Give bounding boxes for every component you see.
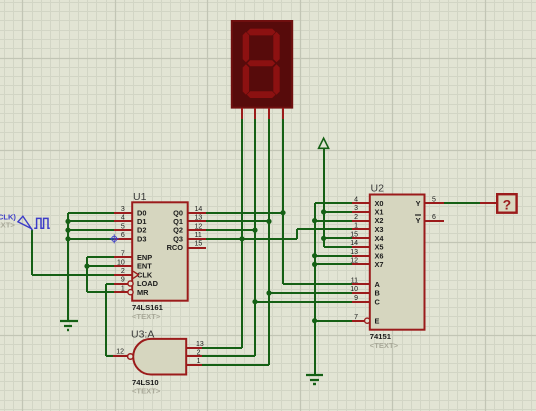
svg-text:10: 10 <box>117 259 125 266</box>
wire MR net <box>87 291 114 293</box>
svg-text:B: B <box>375 289 380 298</box>
pin 2 X2 U2 <box>352 220 370 222</box>
wire Q2 net <box>205 229 255 231</box>
svg-text:14: 14 <box>195 206 203 213</box>
node Q2 junction <box>252 228 257 233</box>
wire X2 net <box>315 220 352 222</box>
display segment d <box>247 91 276 98</box>
pin 4 X0 U2 <box>352 202 370 204</box>
pin 2 CLK U1 <box>114 274 132 276</box>
node D3 junction <box>65 236 70 241</box>
wire D2 net <box>68 229 114 231</box>
svg-text:Y: Y <box>416 216 421 225</box>
wire B net <box>269 292 352 294</box>
chip U1 74LS161 body <box>132 202 188 300</box>
svg-text:?: ? <box>503 196 512 212</box>
svg-text:X3: X3 <box>375 225 384 234</box>
svg-text:D3: D3 <box>137 234 146 243</box>
svg-text:D2: D2 <box>137 226 146 235</box>
svg-text:Q3: Q3 <box>173 234 183 243</box>
wire X6 net <box>315 255 352 257</box>
pin 10 ENT U1 <box>114 265 132 267</box>
pin 11 Q3 U1 <box>188 238 206 240</box>
pin 3 X1 U2 <box>352 211 370 213</box>
node X2 junction <box>312 218 317 223</box>
svg-text:5: 5 <box>432 196 436 203</box>
wire E net <box>315 320 352 322</box>
pin 15 X4 U2 <box>352 237 370 239</box>
svg-text:9: 9 <box>354 295 358 302</box>
svg-text:A: A <box>375 280 381 289</box>
node ENT junction <box>84 264 89 269</box>
svg-text:11: 11 <box>351 278 358 285</box>
wire D3 net <box>68 238 114 240</box>
wire display bit0 vertical <box>282 108 284 284</box>
wire D0 net <box>68 212 114 214</box>
wire X4 net <box>324 237 352 239</box>
wire ENP-ENT-MR tie vertical <box>86 257 88 292</box>
wire LOAD to NAND output vertical <box>105 284 107 356</box>
pin 3 D0 U1 <box>114 212 132 214</box>
node Q0 junction <box>280 210 285 215</box>
svg-text:X0: X0 <box>375 199 384 208</box>
pin 1 X3 U2 <box>352 228 370 230</box>
svg-text:ENT: ENT <box>137 262 152 271</box>
wire A net <box>283 283 352 285</box>
pin 7 E U2 <box>352 320 365 322</box>
wire NAND pin2 net <box>202 355 255 357</box>
pin 10 B U2 <box>352 292 370 294</box>
svg-text:<TEXT>: <TEXT> <box>132 312 161 321</box>
wire ENP net <box>87 256 114 258</box>
wire display bit2 vertical <box>254 108 256 356</box>
display pin 4 <box>282 108 284 119</box>
pin 9 C U2 <box>352 301 370 303</box>
node B junction <box>266 290 271 295</box>
wire Q0 net <box>205 212 283 214</box>
display segment a <box>247 29 276 36</box>
pin 14 X5 U2 <box>352 246 370 248</box>
clock marker U1 CLK <box>133 271 138 278</box>
wire LOAD net <box>106 283 114 285</box>
pin 6 D3 U1 <box>114 238 132 240</box>
pin 2 input U3:A <box>186 355 202 357</box>
probe terminal ? <box>480 202 497 204</box>
svg-text:13: 13 <box>196 341 204 348</box>
svg-text:<TEXT>: <TEXT> <box>132 387 161 396</box>
svg-text:2: 2 <box>197 350 201 357</box>
svg-text:Y: Y <box>416 199 421 208</box>
pin 6 Ybar U2 <box>424 220 444 222</box>
wire C net <box>255 301 352 303</box>
pin 5 D2 U1 <box>114 229 132 231</box>
clock generator terminal <box>18 216 32 230</box>
display segment b <box>273 32 279 62</box>
origin marker <box>110 234 119 243</box>
display pin 1 <box>241 108 243 119</box>
pin 4 D1 U1 <box>114 220 132 222</box>
node X1 junction <box>321 209 326 214</box>
svg-text:U2: U2 <box>371 183 385 195</box>
wire NAND pin1 net <box>202 364 269 366</box>
svg-text:6: 6 <box>432 214 436 221</box>
pin 13 input U3:A <box>186 347 202 349</box>
ground symbol right <box>306 374 323 376</box>
node X6 junction <box>312 253 317 258</box>
wire CLK net <box>32 274 114 276</box>
node D2 junction <box>65 228 70 233</box>
pin 1 MR U1 <box>114 291 128 293</box>
svg-text:U1: U1 <box>133 191 147 203</box>
wire display bit1 vertical <box>268 108 270 365</box>
svg-text:E: E <box>375 316 380 325</box>
svg-text:X1: X1 <box>375 208 384 217</box>
wire power rail vertical <box>323 148 325 247</box>
wire clock vertical <box>31 230 33 275</box>
svg-text:74LS161: 74LS161 <box>132 303 164 312</box>
svg-text:74151: 74151 <box>370 332 392 341</box>
svg-text:<TEXT>: <TEXT> <box>0 220 15 229</box>
wire ENT net <box>87 265 114 267</box>
chip U2 74151 body <box>370 195 425 330</box>
display pin 3 <box>268 108 270 119</box>
wire X1 net <box>324 211 352 213</box>
pin 1 input U3:A <box>186 364 202 366</box>
svg-text:12: 12 <box>195 223 203 230</box>
svg-text:11: 11 <box>195 232 202 239</box>
power terminal VCC <box>319 138 329 148</box>
display pin 2 <box>254 108 256 119</box>
wire NAND output net <box>106 355 113 357</box>
svg-text:2: 2 <box>354 214 358 221</box>
pin 14 Q0 U1 <box>188 212 206 214</box>
svg-text:U3:A: U3:A <box>131 329 154 341</box>
pin 12 Q2 U1 <box>188 229 206 231</box>
node D1 junction <box>65 219 70 224</box>
svg-text:14: 14 <box>350 240 358 247</box>
pin 9 LOAD U1 <box>114 283 128 285</box>
node X4 junction <box>321 236 326 241</box>
wire X5 net <box>324 246 352 248</box>
wire D1 net <box>68 220 114 222</box>
svg-text:X7: X7 <box>375 260 384 269</box>
node E junction <box>312 318 317 323</box>
pin 5 Y U2 <box>424 202 444 204</box>
pin 11 A U2 <box>352 283 370 285</box>
svg-text:3: 3 <box>354 205 358 212</box>
svg-text:7: 7 <box>121 251 125 258</box>
svg-text:X6: X6 <box>375 251 384 260</box>
wire Y output net <box>444 202 480 204</box>
clock waveform glyph <box>34 218 50 228</box>
svg-text:1: 1 <box>121 285 125 292</box>
svg-text:X5: X5 <box>375 243 384 252</box>
svg-text:9: 9 <box>121 277 125 284</box>
display segment g <box>247 60 275 66</box>
svg-text:D0: D0 <box>137 208 146 217</box>
svg-text:6: 6 <box>121 232 125 239</box>
pin 12 X7 U2 <box>352 263 370 265</box>
pin 13 Q1 U1 <box>188 220 206 222</box>
svg-text:Q2: Q2 <box>173 226 183 235</box>
svg-text:X2: X2 <box>375 216 384 225</box>
wire Q1 net <box>205 220 269 222</box>
svg-text:13: 13 <box>350 249 358 256</box>
wire NAND pin13 net <box>202 347 242 349</box>
svg-text:D1: D1 <box>137 217 146 226</box>
wire X3 net <box>297 228 352 230</box>
svg-text:12: 12 <box>116 349 124 356</box>
svg-text:<TEXT>: <TEXT> <box>370 341 399 350</box>
pin 13 X6 U2 <box>352 255 370 257</box>
svg-text:7: 7 <box>354 314 358 321</box>
pin 15 RCO U1 <box>188 247 206 249</box>
svg-text:3: 3 <box>121 206 125 213</box>
wire X0 net <box>315 202 352 204</box>
svg-text:RCO: RCO <box>167 243 184 252</box>
svg-text:1: 1 <box>354 223 358 230</box>
wire Q3 jog vertical <box>296 229 298 239</box>
display segment e <box>243 64 249 94</box>
svg-text:4: 4 <box>354 196 358 203</box>
wire display bit3 vertical <box>241 108 243 348</box>
svg-text:MR: MR <box>137 288 149 297</box>
node X7 junction <box>312 262 317 267</box>
display segment c <box>273 64 279 94</box>
svg-text:12: 12 <box>350 258 358 265</box>
node Q1 junction <box>266 219 271 224</box>
svg-text:15: 15 <box>350 232 358 239</box>
pin 7 ENP U1 <box>114 256 132 258</box>
svg-text:2: 2 <box>121 268 125 275</box>
svg-text:1: 1 <box>197 358 201 365</box>
ground symbol left <box>60 320 78 322</box>
svg-text:15: 15 <box>195 241 203 248</box>
svg-text:X4: X4 <box>375 234 385 243</box>
svg-text:10: 10 <box>350 286 358 293</box>
svg-text:Q0: Q0 <box>173 208 183 217</box>
svg-text:C: C <box>375 297 381 306</box>
svg-text:5: 5 <box>121 223 125 230</box>
svg-text:13: 13 <box>195 215 203 222</box>
wire Q3 net <box>205 238 297 240</box>
svg-text:Q1: Q1 <box>173 217 183 226</box>
svg-text:ENP: ENP <box>137 253 152 262</box>
gate U3:A 74LS10 body <box>133 339 186 375</box>
display 7SEG-BCD body <box>232 21 292 108</box>
wire D-input ground rail top corner <box>67 213 69 321</box>
wire X7 net <box>315 263 352 265</box>
node Q3 junction <box>239 236 244 241</box>
svg-text:4: 4 <box>121 215 125 222</box>
node C junction <box>252 299 257 304</box>
pin 12 output U3:A <box>113 355 128 357</box>
display segment f <box>243 32 249 62</box>
wire ground rail X0 corner <box>314 203 316 375</box>
svg-text:LOAD: LOAD <box>137 279 159 288</box>
